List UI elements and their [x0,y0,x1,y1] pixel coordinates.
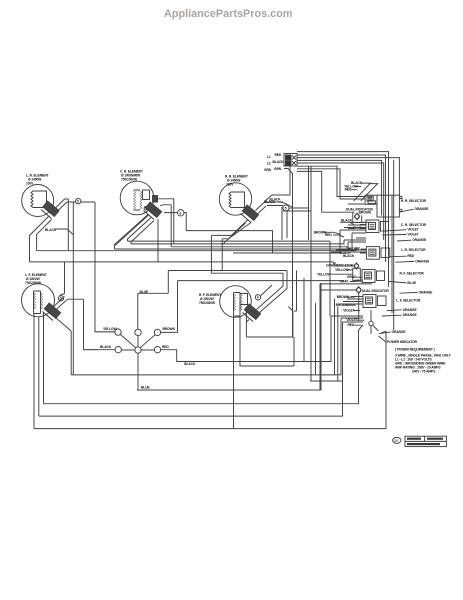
svg-text:R. F. SELECTOR: R. F. SELECTOR [400,271,425,275]
R.R. wires to badge [256,202,312,214]
svg-text:RED: RED [162,345,169,349]
mid bundle loose [30,249,357,266]
stamp table [405,436,446,446]
badge circle 5 L.R. [76,199,81,204]
selector R.F. [362,270,385,283]
power indicator lamp [359,293,379,335]
badge circle 5 R.R. [283,205,289,211]
svg-text:L. R. SELECTOR: L. R. SELECTOR [401,248,426,252]
svg-text:ORANGE: ORANGE [415,260,430,264]
badge circle 5 L.F. [58,296,63,301]
svg-text:5: 5 [285,207,287,211]
svg-text:GRAY: GRAY [340,280,350,284]
svg-text:RED: RED [325,233,332,237]
right column feeds [282,174,297,338]
svg-text:750/1500W: 750/1500W [121,178,138,182]
power requirement note [395,348,451,374]
svg-text:BROWN: BROWN [359,211,372,215]
svg-text:L. F. SELECTOR: L. F. SELECTOR [396,298,421,302]
dual indicator 3 [320,287,361,381]
svg-text:GRN: GRN [274,167,282,171]
mid labels brown red [314,230,332,237]
selector R.R. [365,195,402,217]
central junction star [84,281,332,390]
yellow feed from L.R. [95,202,115,332]
C.R. selector leaders [382,230,411,241]
element C.R. surface unit [120,181,157,215]
svg-text:DUAL INDICATOR: DUAL INDICATOR [362,289,389,293]
svg-text:BLACK: BLACK [184,362,196,366]
L.F. selector label [343,298,421,327]
svg-text:BLACK: BLACK [341,218,353,222]
svg-text:BLACK: BLACK [100,345,112,349]
L.F. plug connector [43,303,61,320]
svg-text:GE: GE [394,439,400,443]
svg-text:240V - 75 AMPS: 240V - 75 AMPS [412,370,436,374]
C.R. label [120,170,143,182]
C.R. selector label [353,223,427,242]
R.F. label [199,293,221,305]
svg-text:230V: 230V [226,183,234,187]
svg-text:230V: 230V [26,182,34,186]
power indicator labels [387,330,418,344]
top wire bundle [297,152,399,330]
badge circle 4 R.F. [255,295,260,300]
switch leader labels top right [344,181,363,192]
svg-text:BROWN: BROWN [163,327,176,331]
L.R. plug connector [41,201,59,218]
selector L.R. [354,247,390,260]
element R.F. surface unit [220,286,252,318]
svg-text:750/2350W: 750/2350W [25,281,42,285]
svg-text:ORANGE: ORANGE [392,330,407,334]
R.R. plug connector [241,205,259,222]
R.F. connector down loop [234,307,295,429]
right mid verticals [304,241,330,390]
svg-text:BLUE: BLUE [353,226,362,230]
svg-text:4: 4 [257,296,259,300]
svg-text:BLACK: BLACK [264,200,276,204]
R.F. plug connector [243,304,261,321]
svg-text:VIOLET: VIOLET [407,228,418,232]
R.F. selector leaders [350,277,418,293]
svg-text:C. R. SELECTOR: C. R. SELECTOR [401,223,427,227]
selector L.F. [363,295,386,308]
element R.R. surface unit [219,183,251,215]
L.R. black wire label [45,228,73,235]
leader slashes [351,183,378,201]
junction labels [100,327,196,389]
svg-text:L2: L2 [267,162,271,166]
brown red leaders [324,232,344,237]
dual indicator 2 [330,263,360,281]
svg-text:ORANGE: ORANGE [403,313,418,317]
svg-text:BLUE: BLUE [141,386,150,390]
TB down wires [265,166,311,381]
svg-text:YELLOW: YELLOW [317,272,331,276]
C.R. connector down wires [114,215,158,262]
black label under TB [264,200,276,204]
power indicator leaders [379,332,391,342]
svg-text:5: 5 [77,200,79,204]
dual indicator 1 [340,212,372,222]
svg-text:( POWER REQUIREMENT ): ( POWER REQUIREMENT ) [395,348,435,352]
ground lead [284,169,293,174]
svg-text:AppliancePartsPros.com: AppliancePartsPros.com [164,8,293,20]
C.R. plug connector [144,202,162,219]
stamp logo [393,437,401,443]
blue drop to junction [138,271,169,330]
selector left stubs [320,233,386,334]
svg-text:BLUE: BLUE [407,281,416,285]
R.F. wires to hood [257,271,288,313]
svg-text:VIOLET: VIOLET [407,233,418,237]
R.R. label [225,175,248,187]
R.R. selector label [401,199,427,203]
svg-text:RED: RED [275,153,282,157]
svg-text:GRD: GRD [264,168,272,172]
orange leader 1 [399,207,429,212]
svg-text:YELLOW: YELLOW [103,327,117,331]
svg-text:BLACK: BLACK [343,254,355,258]
brown leaders [346,297,356,305]
selector input stubs [297,166,366,304]
L.F. wires to badge [52,262,98,350]
svg-text:BLACK: BLACK [273,160,285,164]
svg-text:ORANGE: ORANGE [419,290,434,294]
svg-text:ORANGE: ORANGE [415,207,430,211]
terminal block TB [284,154,297,167]
svg-text:ORANGE: ORANGE [403,308,418,312]
svg-text:ORANGE: ORANGE [412,238,427,242]
R.R. black wire label [270,198,293,208]
element L.R. surface unit [22,185,54,217]
L.R. connector down wires [30,217,52,262]
R.F. selector label [340,271,434,294]
terminal block labels [264,153,284,172]
svg-text:RED: RED [407,254,414,258]
element L.F. surface unit [22,284,55,317]
bottom nested loops [34,283,386,429]
svg-text:L1: L1 [267,155,271,159]
selector C.R. [348,220,389,233]
C.R. wires to badge [156,199,273,253]
svg-text:750/2350W: 750/2350W [199,301,216,305]
L.R. selector leaders [390,256,414,262]
svg-text:VIOLET: VIOLET [343,309,354,313]
L.F. selector leaders [353,310,402,325]
svg-text:YELLOW: YELLOW [335,268,349,272]
R.R. connector down wires [211,220,251,274]
svg-text:R. R. SELECTOR: R. R. SELECTOR [401,199,427,203]
lower mid pair to R.F. [168,271,344,281]
L.F. coil down wires [34,313,71,429]
svg-text:POWER INDICATOR: POWER INDICATOR [387,340,418,344]
mid bundle tight [115,230,353,253]
L.R. wires to badge [56,199,95,375]
L.F. label [25,273,47,285]
svg-text:BLUE: BLUE [140,290,149,294]
L.R. selector label [339,247,430,264]
svg-text:6: 6 [180,211,182,215]
badge circle 6 C.R. [178,210,184,216]
L.R. label [26,174,49,186]
